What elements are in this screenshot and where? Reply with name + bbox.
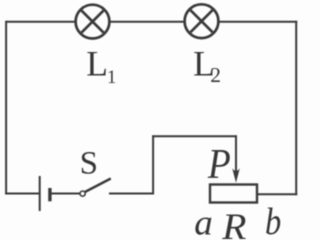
rheostat R body <box>210 185 257 203</box>
wire top-middle segment <box>110 21 186 23</box>
wire mid horizontal <box>152 135 237 137</box>
switch S pivot <box>80 191 85 196</box>
label L2 <box>193 44 221 87</box>
wire switch to riser <box>109 193 154 195</box>
wire left side <box>5 21 7 195</box>
svg-text:S: S <box>80 145 98 181</box>
battery cell short plate <box>48 188 51 201</box>
svg-text:1: 1 <box>107 67 117 88</box>
lamp L1 <box>76 5 110 39</box>
battery cell long plate <box>39 176 41 211</box>
switch S lever <box>85 179 111 193</box>
lamp L2 <box>185 4 219 38</box>
wire battery to switch <box>52 193 80 195</box>
label L1 <box>86 44 116 89</box>
svg-text:b: b <box>265 201 281 240</box>
wire rheostat to right side <box>257 193 297 195</box>
svg-text:a: a <box>194 202 213 240</box>
wire top-right segment <box>219 21 298 23</box>
wire right side <box>295 21 297 196</box>
wire bottom-left <box>5 193 39 195</box>
svg-text:2: 2 <box>210 63 221 87</box>
wire mid riser <box>152 135 154 194</box>
svg-text:L: L <box>86 44 108 84</box>
svg-text:P: P <box>207 141 231 187</box>
svg-text:R: R <box>221 207 246 240</box>
wiper arrowhead <box>232 168 240 183</box>
wire top-left segment <box>6 21 76 23</box>
wiper arrow stem P <box>235 135 237 172</box>
